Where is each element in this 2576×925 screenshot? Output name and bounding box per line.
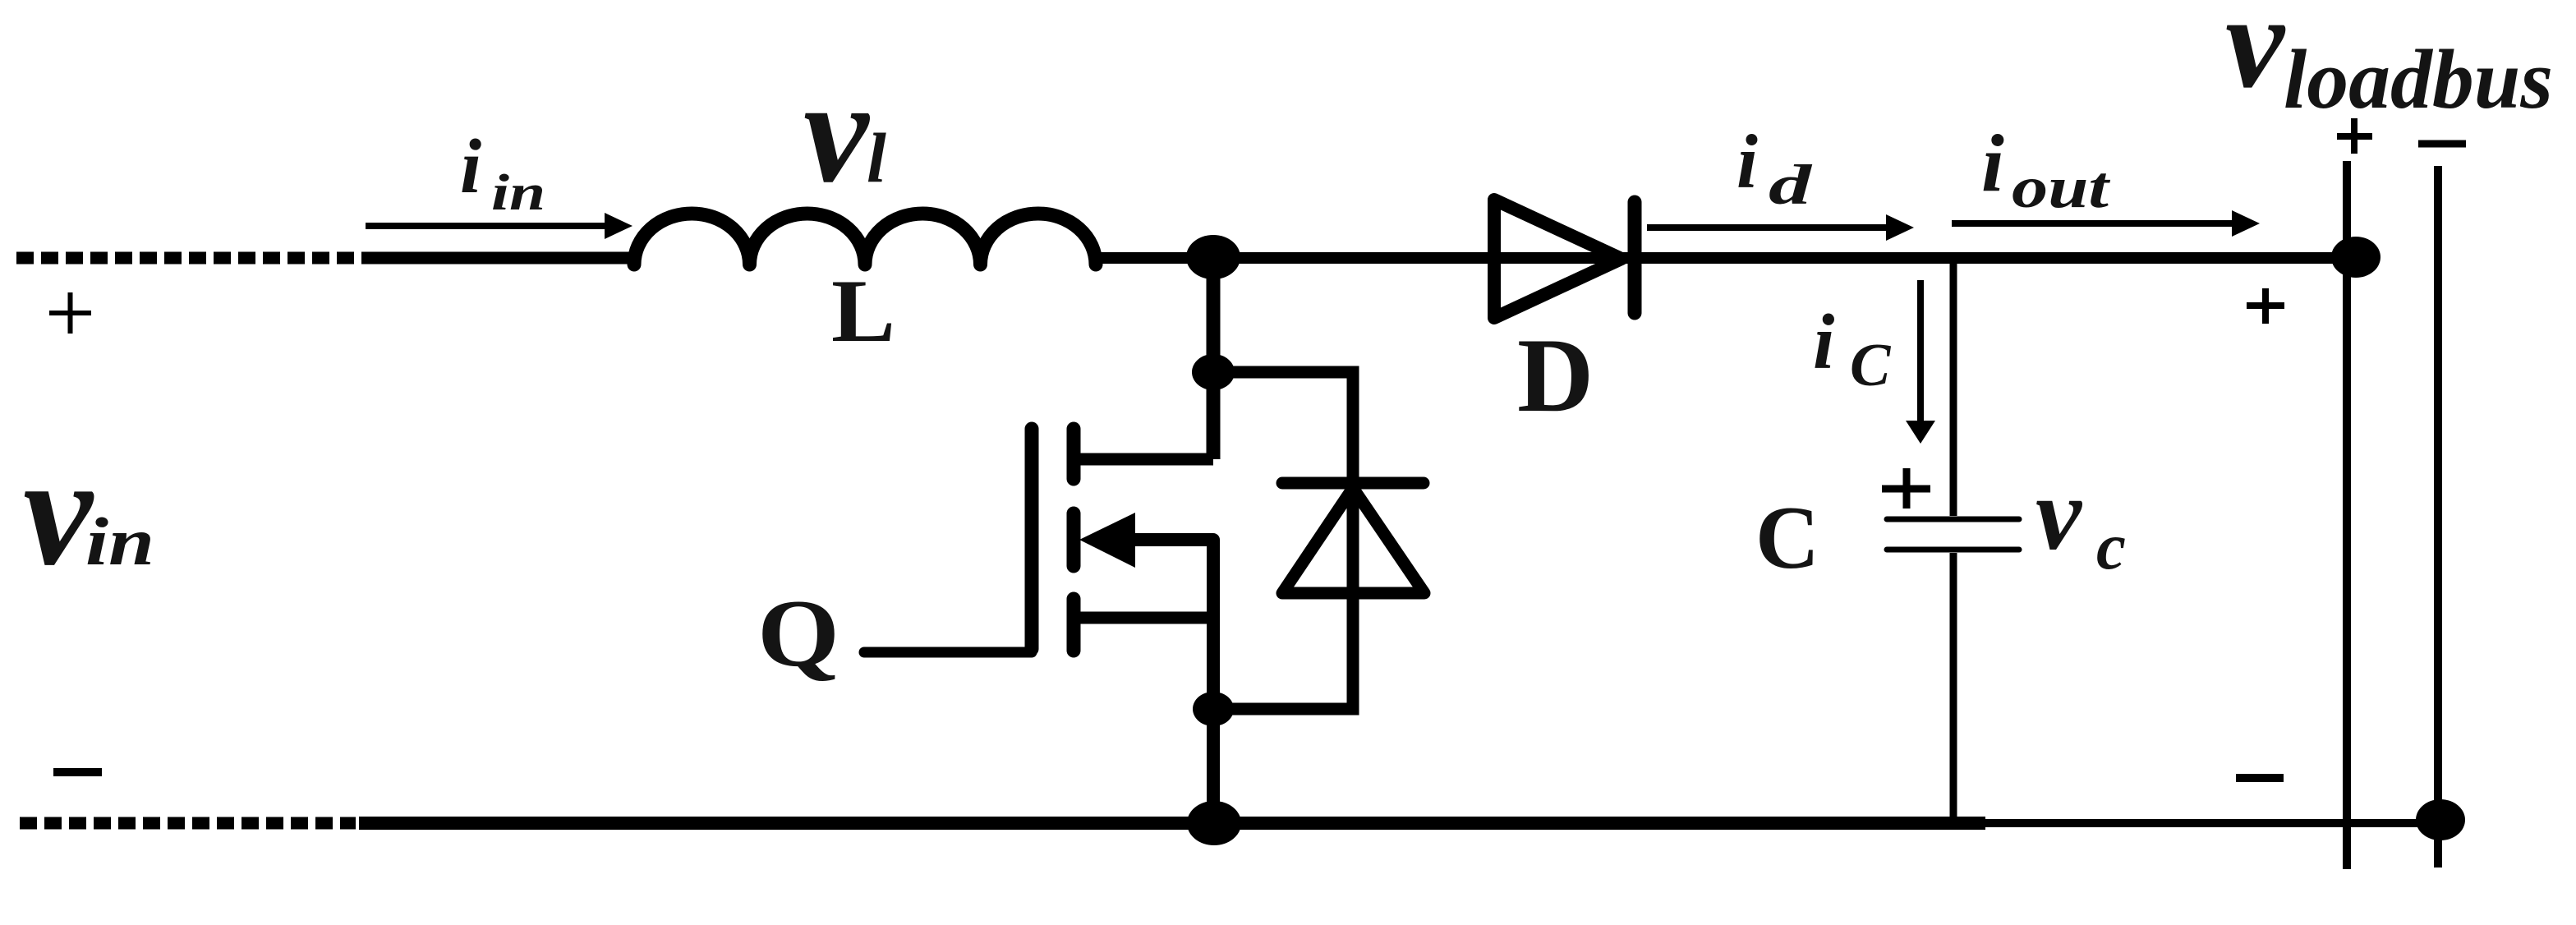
svg-text:D: D bbox=[1517, 316, 1594, 434]
svg-text:v: v bbox=[2035, 458, 2083, 572]
svg-text:Q: Q bbox=[757, 581, 839, 687]
svg-text:out: out bbox=[2012, 154, 2110, 220]
svg-text:C: C bbox=[1755, 488, 1819, 587]
svg-text:loadbus: loadbus bbox=[2284, 33, 2553, 127]
svg-text:i: i bbox=[460, 124, 481, 209]
svg-text:C: C bbox=[1850, 332, 1892, 399]
svg-text:v: v bbox=[23, 425, 94, 598]
svg-text:i: i bbox=[1813, 298, 1834, 385]
svg-text:i: i bbox=[1981, 117, 2004, 209]
svg-text:d: d bbox=[1769, 154, 1813, 216]
svg-text:i: i bbox=[1736, 120, 1758, 205]
svg-text:in: in bbox=[85, 504, 154, 579]
svg-text:L: L bbox=[831, 261, 895, 361]
svg-text:v: v bbox=[803, 49, 871, 213]
svg-text:v: v bbox=[2225, 0, 2286, 116]
svg-text:c: c bbox=[2096, 509, 2126, 583]
svg-text:in: in bbox=[491, 165, 545, 221]
svg-text:l: l bbox=[867, 118, 886, 197]
